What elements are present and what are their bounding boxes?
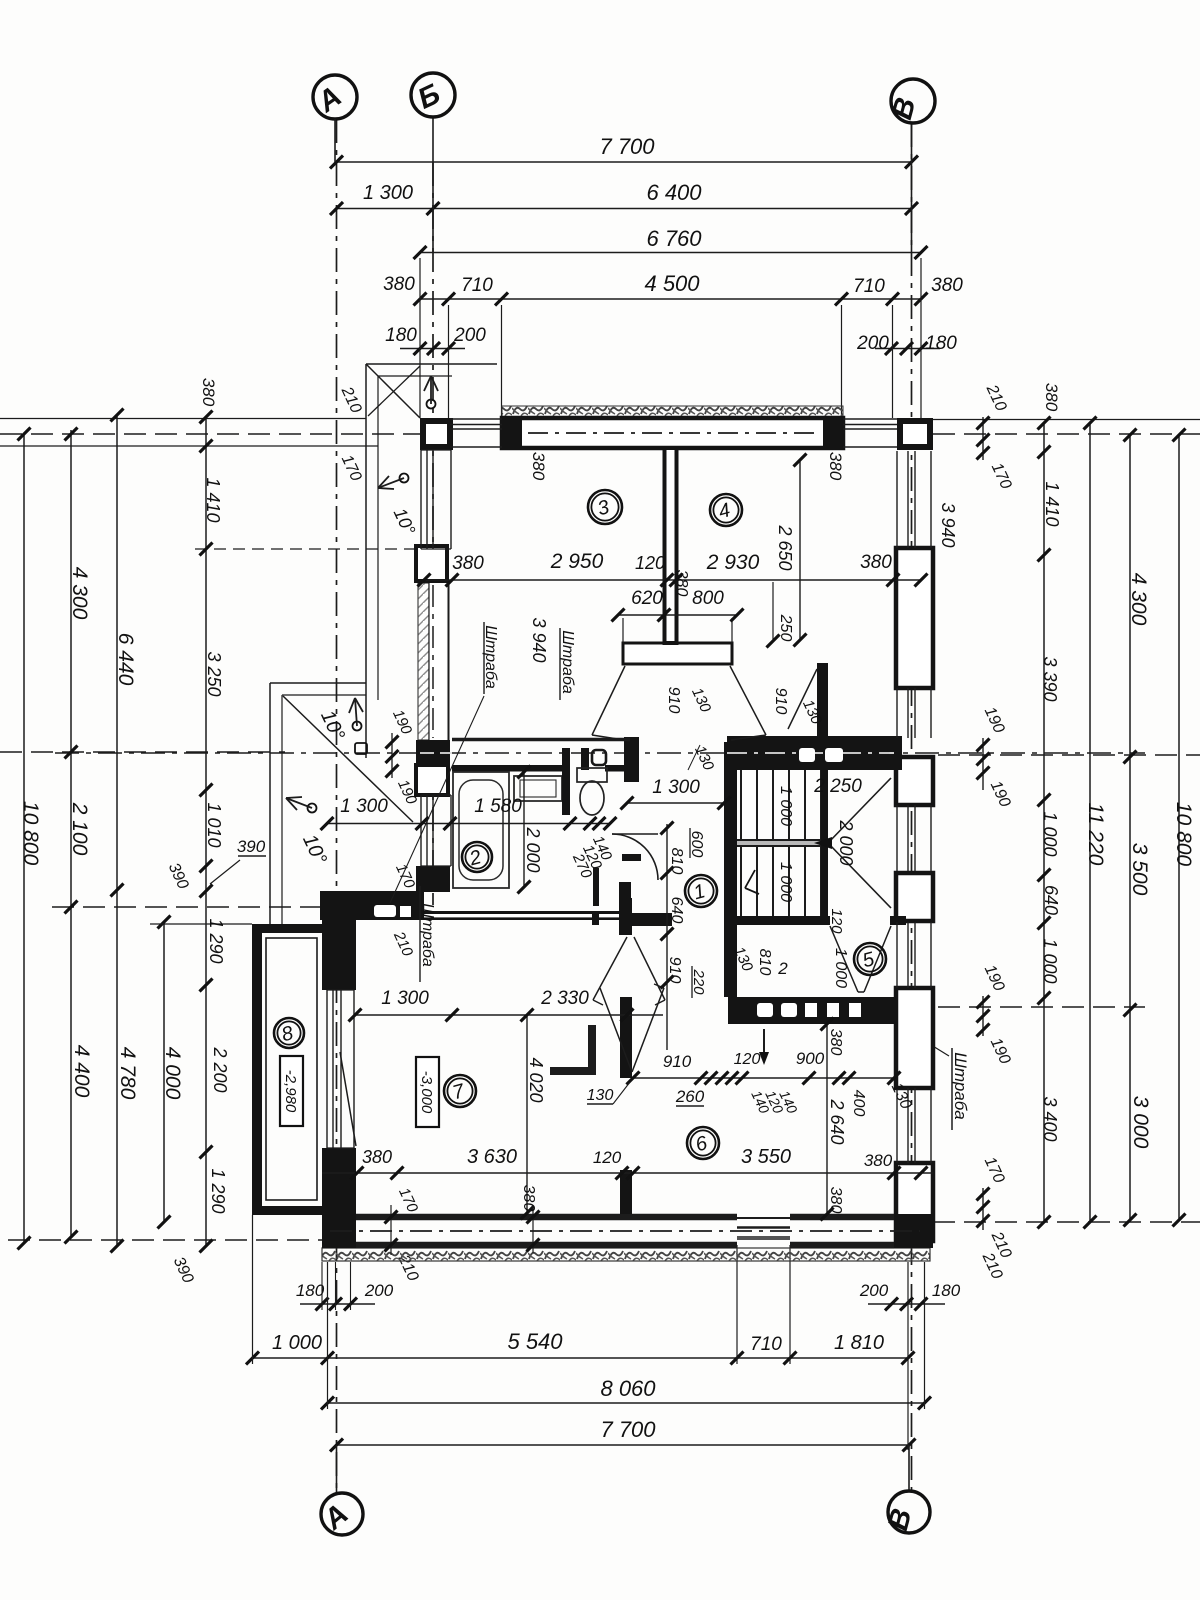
bathtub: [453, 772, 509, 888]
terrace bottom wall: [252, 1206, 322, 1215]
porch square symbol: [355, 743, 367, 754]
axis circle A line: [334, 119, 336, 162]
right chain x=1179 10800: [1178, 435, 1180, 1220]
wall right pier 2 outlined: [896, 757, 933, 805]
window W1 left wall: [420, 450, 422, 549]
right chain x=1090 11220: [1089, 423, 1091, 1222]
chimney mass rooms34: [623, 643, 732, 664]
bottom wall centerline dash: [330, 1230, 920, 1232]
carport eave vertical: [269, 683, 271, 924]
wall rooms34 divider: [665, 448, 677, 643]
dim 2000 bath: [523, 772, 525, 887]
left ref line y=418.5: [0, 418, 366, 420]
svg-text:2 650: 2 650: [775, 524, 795, 570]
svg-text:380: 380: [452, 553, 484, 574]
wall top outer outlined: [502, 418, 843, 448]
svg-text:3 940: 3 940: [529, 617, 549, 662]
svg-text:710: 710: [461, 275, 493, 296]
svg-text:260: 260: [675, 1087, 705, 1106]
svg-text:3 500: 3 500: [1128, 843, 1151, 896]
dim row rooms34 y580: [424, 579, 921, 581]
svg-text:1 010: 1 010: [204, 802, 224, 847]
wall left band junction: [416, 740, 450, 765]
bottom mini 200/180 right: [868, 1303, 945, 1305]
svg-text:400: 400: [850, 1090, 867, 1117]
svg-text:1 000: 1 000: [777, 862, 794, 902]
svg-text:2 000: 2 000: [836, 819, 856, 865]
room2 circle: [462, 842, 492, 872]
window ER4 right wall: [896, 922, 898, 988]
toilet: [577, 768, 607, 782]
svg-text:380: 380: [827, 1029, 844, 1056]
dim room6 2640: [826, 1024, 828, 1214]
svg-text:3 940: 3 940: [938, 502, 958, 547]
stair diag arrow up: [828, 778, 891, 843]
wall stub 640: [624, 913, 672, 926]
svg-text:620: 620: [631, 588, 663, 609]
left chain x=164 4000: [163, 922, 165, 1222]
left ref line y=446: [0, 445, 378, 447]
svg-text:4 000: 4 000: [161, 1047, 184, 1100]
window W2 left wall bath: [420, 795, 422, 866]
svg-text:1 000: 1 000: [272, 1332, 322, 1354]
wall room6 west lower: [620, 1170, 632, 1214]
svg-text:4 020: 4 020: [526, 1057, 546, 1102]
wall hall west: [619, 882, 631, 935]
svg-text:380: 380: [931, 275, 963, 296]
svg-text:200: 200: [364, 1281, 394, 1300]
svg-text:5 540: 5 540: [507, 1329, 563, 1354]
bottom ext x=737: [736, 1245, 738, 1364]
window ER5 right wall: [896, 1088, 898, 1163]
white axis dash over stair band: [727, 752, 894, 754]
wall left pier below window1 outlined: [416, 546, 447, 581]
axis B stub above wall: [432, 117, 434, 253]
wall left pier outlined mid: [416, 765, 448, 795]
right mini chain 190/190 lower: [982, 996, 984, 1036]
door D1 right leaf: [730, 666, 766, 735]
left chain x=117: [116, 415, 118, 1246]
svg-text:2 950: 2 950: [550, 550, 604, 573]
svg-text:1 000: 1 000: [832, 948, 849, 988]
svg-text:1 300: 1 300: [381, 988, 429, 1009]
room8 circle: [274, 1018, 304, 1048]
wc niche chase: [562, 748, 570, 815]
svg-text:640: 640: [668, 897, 685, 924]
axis B dash inside wall: [432, 585, 434, 738]
svg-text:-2,980: -2,980: [282, 1070, 299, 1113]
carport inner horizontal: [282, 694, 366, 696]
svg-text:380: 380: [827, 1187, 844, 1214]
window ER3 right wall: [896, 805, 898, 871]
bottom ext x=327.5: [327, 1262, 329, 1409]
axis circle V top: [891, 79, 935, 123]
stair band black with vents: [727, 736, 902, 770]
mini square upper porch: [361, 734, 363, 736]
svg-text:1 580: 1 580: [474, 796, 522, 817]
svg-text:3 400: 3 400: [1040, 1096, 1060, 1141]
door D3 leaf b: [632, 988, 664, 1072]
bottom ext x=252.5: [252, 1215, 254, 1364]
stair treads upper flight: [740, 770, 742, 840]
wall bottom right outline: [790, 1214, 894, 1221]
svg-text:900: 900: [796, 1049, 825, 1068]
dim bottom inner y1173: [322, 1172, 933, 1174]
svg-text:Штраба: Штраба: [419, 903, 436, 967]
svg-text:200: 200: [856, 333, 889, 354]
door D1 left leaf: [592, 666, 625, 735]
svg-text:180: 180: [385, 325, 417, 346]
wall right pier 3 outlined: [896, 873, 933, 921]
axis circle A top: [313, 75, 357, 119]
svg-text:380: 380: [529, 452, 548, 481]
left wall mini dim 190/190: [391, 733, 393, 778]
bottom row 8060: [328, 1402, 925, 1404]
right chain x=1044: [1043, 423, 1045, 1222]
ref dash y549 left: [195, 548, 420, 550]
svg-text:1 290: 1 290: [206, 918, 226, 963]
wall lower-left upper part: [322, 891, 356, 990]
right ref line y=419: [933, 419, 1200, 421]
extension line x=892.5 top: [892, 305, 894, 418]
dim 620/800: [618, 614, 737, 616]
left ref dash y=434: [0, 433, 420, 435]
right ref dash y=1222: [933, 1221, 1200, 1223]
dim line bath y823: [327, 823, 610, 825]
svg-text:1 000: 1 000: [1040, 811, 1060, 856]
axis A bottom stub: [336, 1445, 338, 1492]
svg-text:1 300: 1 300: [652, 777, 700, 798]
svg-text:2 000: 2 000: [523, 826, 543, 872]
corner pier top-right: [897, 418, 933, 450]
dim room7 y1015: [355, 1014, 663, 1016]
svg-text:2 250: 2 250: [813, 776, 862, 797]
dim row 6760: [420, 252, 921, 254]
window lower-left: [326, 990, 328, 1148]
svg-text:180: 180: [932, 1281, 961, 1300]
right ref dash y=434: [933, 433, 1200, 435]
svg-text:180: 180: [925, 333, 957, 354]
eave top-left inner horizontal: [378, 375, 452, 377]
room7 circle: [444, 1075, 476, 1107]
right ref dash y=1007: [938, 1006, 1145, 1008]
axis circle B top: [411, 73, 455, 117]
svg-text:380: 380: [362, 1147, 392, 1167]
room1 circle: [685, 875, 717, 907]
room7 elevation box: [416, 1057, 439, 1127]
corner pier top-left: [420, 418, 453, 450]
svg-text:810: 810: [756, 949, 773, 976]
dim row 180/200 left: [400, 348, 465, 350]
mini dim wall 170-210 left: [390, 1205, 392, 1255]
dim row 200/180 right: [875, 348, 940, 350]
horizontal center axis y=753: [55, 752, 1145, 754]
wall room4 stub: [817, 663, 828, 742]
door D2 leaf b: [634, 937, 665, 1000]
stair arrow small poly: [745, 870, 759, 894]
axis V bottom stub: [908, 1445, 910, 1490]
door D5 leafs: [830, 926, 858, 992]
terrace top wall: [252, 924, 322, 933]
door D3 leaf a: [600, 988, 632, 1072]
svg-text:4 300: 4 300: [1127, 573, 1150, 626]
svg-text:1 300: 1 300: [340, 796, 388, 817]
svg-text:6 760: 6 760: [646, 226, 702, 251]
eave top-left horizontal: [366, 363, 497, 365]
right chain x=1130: [1129, 435, 1131, 1220]
svg-text:710: 710: [853, 276, 885, 297]
room6 circle: [687, 1127, 719, 1159]
right mini chain 190/190 mid: [982, 738, 984, 790]
svg-text:380: 380: [864, 1151, 893, 1170]
left ref dash y=752: [0, 751, 285, 753]
room4 circle: [710, 494, 742, 526]
label 2650 room4: [799, 460, 801, 640]
svg-text:4 300: 4 300: [68, 567, 91, 620]
slope arrow mid-left: [353, 722, 362, 731]
stair stringer bar: [821, 770, 828, 916]
svg-text:380: 380: [826, 452, 845, 481]
svg-text:10 800: 10 800: [19, 801, 42, 866]
eave top-left vertical: [365, 364, 367, 758]
svg-text:2 100: 2 100: [68, 802, 91, 856]
bottom row 1000/5540/710/1810: [253, 1357, 909, 1359]
axis line B-cyrillic vertical dashed: [432, 162, 434, 905]
svg-text:3 630: 3 630: [467, 1146, 517, 1168]
svg-text:3 250: 3 250: [204, 651, 224, 696]
vent wall rooms 5/6: [728, 997, 894, 1024]
svg-text:810: 810: [668, 848, 685, 875]
room8 elevation box: [280, 1056, 303, 1126]
svg-text:380: 380: [520, 1185, 537, 1212]
carport inner vertical: [281, 695, 283, 924]
svg-text:10 800: 10 800: [1172, 802, 1195, 867]
carport eave horizontal: [270, 682, 366, 684]
svg-text:120: 120: [734, 1051, 761, 1068]
right ref dash y=755: [938, 754, 1200, 756]
svg-text:180: 180: [296, 1281, 325, 1300]
svg-text:1 300: 1 300: [363, 182, 413, 204]
window ER2 right wall: [896, 688, 898, 738]
door room4 leaf: [788, 669, 817, 729]
svg-text:250: 250: [777, 614, 794, 642]
porch gap lines: [737, 1217, 790, 1219]
plinth hatch top: [502, 406, 843, 418]
svg-text:3 000: 3 000: [1129, 1096, 1152, 1149]
dim room6 chain y1078: [633, 1077, 894, 1079]
svg-text:4 400: 4 400: [70, 1045, 93, 1098]
svg-text:2 930: 2 930: [706, 551, 760, 574]
svg-text:1 410: 1 410: [1042, 481, 1062, 526]
carport diagonal: [283, 696, 413, 822]
terrace door leaf: [340, 1052, 356, 1146]
svg-text:380: 380: [199, 378, 218, 407]
right mini chain 210/170 top: [982, 417, 984, 460]
svg-text:380: 380: [383, 274, 415, 295]
extension line x=420 top: [419, 258, 421, 418]
axis circle A bottom: [321, 1493, 363, 1535]
wall bottom main outline: [356, 1214, 737, 1221]
svg-text:380: 380: [673, 570, 690, 597]
dim corridor 1300: [627, 802, 724, 804]
svg-text:390: 390: [237, 837, 266, 856]
dim room7 4020: [526, 1015, 528, 1213]
svg-text:1 000: 1 000: [1040, 938, 1060, 983]
porch opening bottom lines: [737, 1217, 790, 1219]
svg-text:200: 200: [453, 325, 486, 346]
svg-text:6 440: 6 440: [114, 633, 137, 686]
svg-text:-3,000: -3,000: [418, 1071, 435, 1114]
bottom ext x=924.5: [924, 1262, 926, 1409]
svg-text:380: 380: [860, 552, 892, 573]
terrace inner rect: [266, 938, 317, 1200]
vent symbol wc: [592, 750, 606, 765]
left wall inner white: [429, 583, 446, 740]
plinth hatch bottom: [322, 1248, 930, 1261]
axis circle V bottom: [888, 1491, 930, 1533]
svg-text:4 780: 4 780: [116, 1047, 139, 1100]
room5 circle: [854, 943, 886, 975]
svg-text:910: 910: [663, 1052, 692, 1071]
axis line A vertical dashed: [336, 119, 338, 1492]
svg-text:Штраба: Штраба: [559, 630, 576, 694]
bottom row 7700: [337, 1444, 910, 1446]
wall band bath-bottom thick w vents: [320, 891, 424, 920]
svg-text:380: 380: [1042, 383, 1061, 412]
extension line x=448.5 top: [448, 305, 450, 418]
window N1 top wall: [450, 418, 502, 420]
bath top wall black bottom: [452, 765, 562, 772]
svg-text:910: 910: [666, 957, 683, 984]
wall room6 west upper: [620, 898, 632, 935]
svg-text:1 290: 1 290: [208, 1168, 228, 1213]
wall right pier 4 outlined: [896, 988, 933, 1088]
bottom ext x=908: [907, 1262, 909, 1450]
svg-text:4 500: 4 500: [644, 271, 700, 296]
svg-text:710: 710: [750, 1334, 782, 1355]
section bar b: [592, 913, 599, 925]
svg-text:2 640: 2 640: [827, 1098, 847, 1144]
slope arrow top porch: [427, 400, 436, 409]
door wc arc: [612, 834, 658, 880]
dim row 7700 top: [337, 161, 912, 163]
stairwell west wall: [724, 742, 737, 997]
svg-text:1 810: 1 810: [834, 1332, 884, 1354]
left ref dash y=1240: [8, 1239, 330, 1241]
wall right pier 5 outlined: [896, 1163, 933, 1241]
left ref dash y=907: [52, 906, 335, 908]
window ER1 right wall: [896, 451, 898, 548]
window N2 top wall: [843, 418, 897, 420]
wall left pier below window2: [416, 866, 450, 892]
extension line x=501.5 top: [501, 305, 503, 418]
wall lower-left lower part: [322, 1148, 356, 1218]
mini dim wall 380 mid: [532, 1205, 534, 1253]
section bar a: [622, 854, 641, 861]
stair treads lower flight: [740, 846, 742, 916]
stair mid landing band: [737, 840, 822, 846]
svg-text:120: 120: [828, 908, 845, 934]
bath top wall top edge: [452, 738, 630, 742]
extension line x=841.5 top: [841, 305, 843, 418]
svg-text:3 390: 3 390: [1040, 656, 1060, 701]
svg-text:7 700: 7 700: [600, 1417, 656, 1442]
axis line V vertical dashed: [911, 123, 913, 1490]
slope arrow lower-left: [308, 804, 317, 813]
svg-text:910: 910: [772, 688, 789, 715]
room7 corner bracket: [588, 1025, 596, 1072]
eave top-left inner vertical: [377, 376, 379, 700]
svg-text:3 550: 3 550: [741, 1146, 791, 1168]
stair bottom wall: [724, 916, 830, 925]
door D2 leaf a: [593, 937, 627, 1000]
right mini chain 170/210 bottom: [982, 1188, 984, 1230]
svg-text:1 410: 1 410: [203, 477, 223, 522]
dim row 1300/6400: [337, 208, 912, 210]
svg-text:2: 2: [777, 959, 788, 978]
svg-text:120: 120: [635, 553, 665, 573]
svg-text:11 220: 11 220: [1084, 803, 1107, 866]
stair bottom wall right bit: [890, 916, 906, 925]
svg-text:6 400: 6 400: [646, 180, 702, 205]
wall right pier 1 outlined: [896, 548, 933, 688]
white axis dash over left band: [420, 752, 452, 754]
dim row 380/710/4500/710/380: [420, 298, 921, 300]
eave corner diagonal: [366, 364, 420, 418]
left chain x=24 10800: [23, 434, 25, 1243]
slope arrow upper-left: [400, 474, 409, 483]
svg-text:8 060: 8 060: [600, 1376, 656, 1401]
svg-text:2 330: 2 330: [540, 988, 589, 1009]
svg-text:800: 800: [692, 588, 724, 609]
svg-text:7 700: 7 700: [599, 134, 655, 159]
bottom mini 180/200 left: [300, 1303, 375, 1305]
svg-text:2 200: 2 200: [210, 1046, 230, 1092]
sink: [514, 776, 562, 801]
extension line x=921 top: [920, 258, 922, 450]
wall bath right at band: [624, 737, 639, 782]
svg-text:1 000: 1 000: [777, 786, 794, 826]
left wall hatch strip outer: [418, 583, 429, 740]
hall dim line vertical: [666, 824, 668, 1050]
svg-text:120: 120: [593, 1148, 622, 1167]
svg-text:200: 200: [859, 1281, 889, 1300]
svg-text:640: 640: [1041, 885, 1061, 915]
left chain x=206: [205, 417, 207, 1246]
left chain x=71: [70, 430, 72, 1237]
axis V stub above: [911, 123, 913, 253]
svg-text:130: 130: [587, 1087, 614, 1104]
terrace west wall: [252, 924, 262, 1215]
wall bath-bottom thin: [424, 911, 627, 920]
bottom ext x=790: [789, 1245, 791, 1364]
svg-text:Штраба: Штраба: [951, 1052, 970, 1120]
svg-text:910: 910: [665, 687, 682, 714]
room3 circle: [588, 490, 622, 524]
